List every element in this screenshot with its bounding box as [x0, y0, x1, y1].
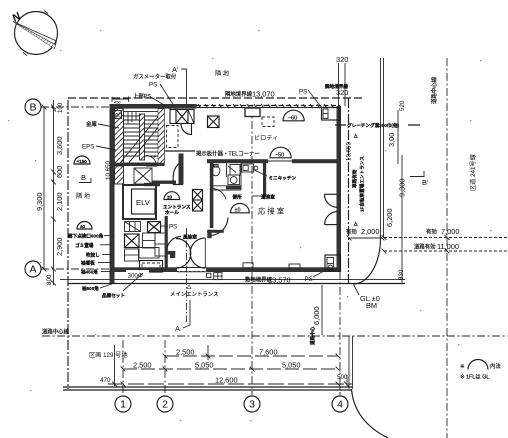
road centre line (south, dash-dot): [42, 335, 508, 337]
svg-text:320: 320: [336, 88, 348, 97]
section line A-A vertical: [185, 228, 187, 322]
small cells: [125, 233, 168, 261]
toilet door leaf: [228, 166, 236, 173]
entrance opening sill: [177, 267, 206, 269]
toilet room: [212, 165, 220, 176]
svg-text:有効: 有効: [426, 228, 437, 236]
outer wall left: [110, 104, 115, 272]
svg-text:12,600: 12,600: [215, 376, 238, 385]
reception top wall right: [292, 159, 341, 163]
label TEL corner: [195, 150, 265, 158]
svg-text:B: B: [81, 173, 86, 182]
PS box top right: [322, 108, 341, 121]
svg-text:500: 500: [337, 374, 348, 381]
grid bubble 1: [115, 396, 131, 412]
north arrow: [10, 10, 57, 55]
svg-text:2,500: 2,500: [176, 348, 195, 357]
east site boundary: [348, 98, 350, 284]
section mark A bottom: [175, 300, 190, 333]
PS box bottom right: [325, 255, 341, 271]
lobby corner wall: [207, 230, 211, 238]
wind lobby inner door arc: [167, 237, 181, 251]
ELV top wall: [144, 183, 160, 186]
toilet block inner walls: [213, 163, 266, 196]
right dim lines: [398, 110, 402, 284]
svg-text:600: 600: [55, 166, 64, 178]
svg-text:5,050: 5,050: [195, 361, 214, 370]
svg-text:1: 1: [120, 399, 126, 411]
svg-text:2,100: 2,100: [55, 193, 64, 212]
grating channel line: [335, 124, 420, 126]
svg-text:1F自転車置場エントランス: 1F自転車置場エントランス: [359, 156, 366, 212]
grid bubble A: [25, 261, 41, 277]
svg-text:PS: PS: [169, 224, 177, 231]
svg-text:△: △: [353, 221, 358, 226]
svg-text:A: A: [29, 264, 36, 276]
svg-text:PS: PS: [299, 89, 307, 96]
svg-text:掲示板什器・TELコーナー: 掲示板什器・TELコーナー: [196, 150, 260, 158]
stairs: [120, 112, 162, 166]
svg-text:隣地境界線: 隣地境界線: [225, 90, 253, 98]
grid line A: [41, 268, 112, 270]
svg-text:B': B': [422, 178, 429, 187]
site boundary north (dashed) with label: [68, 97, 365, 99]
kitchenette wall: [263, 163, 266, 196]
legend dome symbol: [460, 360, 501, 381]
bottom dimension row 2: [121, 367, 341, 372]
svg-text:△: △: [353, 133, 358, 138]
grid bubble 4: [332, 396, 348, 412]
svg-text:車路有効: 車路有効: [351, 169, 358, 188]
svg-text:±0: ±0: [80, 224, 86, 229]
svg-text:ゴミ置場: ゴミ置場: [75, 242, 94, 249]
fence 320 lines top right: [339, 63, 346, 106]
svg-text:±0: ±0: [167, 195, 173, 200]
svg-text:廊下点検口600角: 廊下点検口600角: [68, 233, 104, 240]
entrance sill dashes: [176, 270, 205, 272]
svg-text:※ 1FLは GL: ※ 1FLは GL: [460, 374, 489, 381]
svg-text:5,050: 5,050: [282, 361, 301, 370]
label main entrance: [170, 284, 218, 298]
core bottom wall: [110, 163, 165, 166]
stair side wall hatched: [115, 109, 124, 164]
grid line 3 vertical: [251, 106, 253, 395]
svg-text:7,600: 7,600: [259, 348, 278, 357]
svg-text:520: 520: [399, 100, 406, 111]
bottom dimension row 1: [163, 354, 341, 359]
level dome pm0 left: [77, 222, 92, 229]
svg-text:袖看板: 袖看板: [81, 260, 95, 267]
svg-text:800: 800: [46, 274, 53, 285]
wind lobby left wall: [165, 216, 168, 268]
hall right wall: [210, 163, 214, 228]
base line bottom: [63, 386, 352, 388]
dashed hatch rect (upper floor line): [167, 126, 179, 148]
corridor wall: [152, 181, 176, 184]
piloti column solid: [245, 108, 260, 117]
svg-text:10,650: 10,650: [105, 161, 112, 180]
piloti open edge north (dashed): [196, 105, 340, 107]
svg-text:品庫セット: 品庫セット: [102, 292, 125, 299]
grid line B: [41, 106, 122, 108]
svg-text:−50: −50: [275, 153, 284, 159]
svg-text:グレーチング溝300巾(他): グレーチング溝300巾(他): [347, 122, 400, 129]
svg-text:袖600角: 袖600角: [82, 285, 99, 292]
svg-text:A: A: [175, 324, 180, 333]
left dimension chain: [42, 100, 56, 285]
svg-text:500: 500: [112, 113, 123, 120]
TEL corner line: [160, 150, 264, 152]
level dome -50: [270, 147, 291, 158]
svg-text:道路中心線: 道路中心線: [42, 328, 70, 336]
tile marks below entrance: [207, 273, 211, 277]
svg-text:13,070: 13,070: [252, 90, 275, 99]
svg-text:7,000: 7,000: [441, 227, 460, 236]
svg-text:道路中心線: 道路中心線: [430, 76, 438, 104]
svg-text:吹抜し: 吹抜し: [86, 252, 100, 259]
reception top wall left: [207, 159, 268, 163]
door arc stair lobby: [181, 124, 192, 135]
svg-text:100: 100: [57, 102, 64, 113]
mini kitchen unit: [242, 164, 258, 172]
svg-text:隣 地: 隣 地: [215, 70, 229, 78]
section mark A': [172, 65, 187, 104]
svg-text:3: 3: [249, 399, 255, 411]
leader lines to PS box: [160, 84, 178, 112]
svg-text:6,200: 6,200: [385, 209, 394, 228]
svg-text:便所: 便所: [233, 194, 243, 201]
store room with cross: [125, 234, 140, 248]
svg-text:4: 4: [337, 399, 343, 411]
svg-text:EPS: EPS: [82, 144, 94, 151]
entrance hall level dome: [164, 192, 180, 200]
svg-text:道路有効: 道路有効: [414, 243, 436, 251]
svg-text:湯沸室: 湯沸室: [261, 194, 275, 201]
level dome +150: [74, 156, 90, 164]
svg-text:区画 129 号地: 区画 129 号地: [89, 351, 128, 359]
svg-text:2,000: 2,000: [361, 227, 380, 236]
svg-text:2: 2: [162, 399, 168, 411]
svg-text:上部PS: 上部PS: [133, 92, 151, 100]
grid bubble 3: [244, 396, 260, 412]
outer wall bottom right part: [206, 267, 341, 272]
svg-text:320: 320: [336, 55, 348, 64]
svg-text:+150: +150: [77, 159, 88, 164]
driveway curve: [354, 238, 381, 284]
reception double door arcs: [324, 193, 336, 195]
svg-text:※: ※: [460, 364, 465, 370]
stair right wall: [162, 104, 165, 165]
svg-text:内法: 内法: [490, 362, 501, 370]
svg-text:2,900: 2,900: [55, 238, 64, 257]
door arc washroom: [211, 188, 226, 199]
wind lobby double X duct: [193, 190, 203, 212]
svg-text:隣 地: 隣 地: [76, 192, 90, 200]
svg-text:メインエントランス: メインエントランス: [170, 291, 218, 298]
svg-text:風除室: 風除室: [183, 234, 197, 241]
wash basin: [228, 165, 240, 185]
svg-text:830: 830: [398, 269, 405, 280]
small dim 450 above corner: [112, 97, 129, 102]
svg-text:±0: ±0: [235, 208, 241, 214]
svg-text:有効: 有効: [346, 228, 357, 236]
svg-text:13,570: 13,570: [268, 276, 291, 285]
svg-text:区道 241号線: 区道 241号線: [469, 154, 477, 191]
level dome pm0 reception: [231, 203, 250, 213]
entrance double swing doors: [176, 239, 191, 269]
outer wall right: [337, 106, 342, 272]
door hall to reception: [173, 162, 183, 185]
svg-text:ELV: ELV: [136, 198, 151, 207]
hall step wall: [179, 154, 184, 185]
label 500 box: [111, 111, 123, 120]
level dome -60: [283, 110, 304, 121]
grid bubble B: [25, 99, 41, 115]
svg-text:PS: PS: [149, 82, 157, 89]
wind lobby jamb wall: [166, 251, 175, 255]
svg-text:ガスメーター取付: ガスメーター取付: [133, 73, 177, 81]
svg-text:3,00: 3,00: [387, 133, 396, 147]
svg-text:金庫: 金庫: [86, 120, 97, 128]
svg-text:応接室: 応接室: [258, 207, 286, 216]
bottom dimension row 3: [108, 382, 352, 387]
grid line 2 vertical: [164, 340, 166, 395]
section mark B left: [79, 173, 91, 183]
road corner curve bottom right: [352, 389, 389, 438]
svg-text:道路中心: 道路中心: [309, 326, 316, 345]
mat dashed rect: [140, 261, 163, 273]
outer wall top (stair area): [110, 104, 197, 109]
svg-text:6,000: 6,000: [312, 307, 321, 326]
grid bubble 2: [157, 396, 173, 412]
svg-text:袖450角: 袖450角: [81, 269, 98, 276]
hatched cells left of ELV: [115, 166, 153, 232]
grid line 4 vertical: [339, 272, 341, 395]
label grating: [346, 121, 408, 130]
svg-text:B: B: [29, 102, 36, 114]
svg-text:BM: BM: [366, 301, 377, 310]
piloti column dashed: [262, 117, 274, 127]
svg-text:UP: UP: [151, 154, 157, 159]
PS duct box top with cross: [170, 110, 194, 124]
piloti column with cross: [208, 116, 220, 128]
driveway edge lines: [381, 58, 384, 238]
wall stubs on bottom wall: [243, 263, 253, 268]
label 3000 on wall: [126, 270, 149, 280]
svg-text:9,300: 9,300: [35, 193, 44, 212]
grid line 1 vertical: [122, 340, 124, 395]
section mark B': [410, 171, 429, 187]
door lobby to reception: [210, 218, 229, 237]
svg-text:−60: −60: [288, 116, 297, 122]
svg-text:11,000: 11,000: [437, 242, 459, 251]
PS box with cross (hall): [148, 222, 161, 233]
road centre line (east, dash-dot): [446, 58, 448, 438]
svg-text:450: 450: [114, 100, 121, 105]
door corridor top: [146, 156, 157, 167]
outer wall bottom left part: [110, 267, 178, 272]
svg-text:ホール: ホール: [165, 209, 179, 216]
svg-text:300Φ: 300Φ: [128, 273, 143, 280]
GL BM label: [354, 285, 380, 311]
svg-text:ピロティ: ピロティ: [254, 135, 278, 142]
extension lines to building: [115, 345, 348, 386]
svg-text:PS: PS: [305, 276, 313, 283]
svg-text:10,650: 10,650: [346, 142, 353, 161]
ELV shaft: [123, 185, 156, 219]
svg-text:3,600: 3,600: [55, 137, 64, 156]
site boundary south with label: [68, 283, 405, 285]
svg-text:470: 470: [100, 377, 111, 384]
svg-text:A': A': [172, 65, 179, 74]
svg-text:△: △: [187, 284, 191, 290]
site boundary west: [67, 100, 69, 389]
svg-text:2,500: 2,500: [133, 361, 152, 370]
